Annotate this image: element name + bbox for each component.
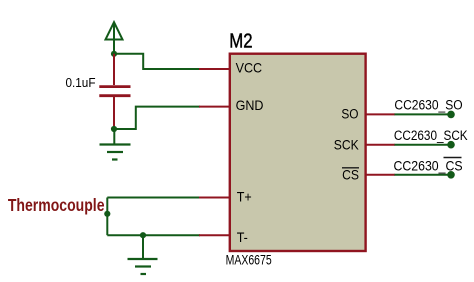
wire thermocouple vertical xyxy=(106,198,108,236)
terminal dot Thermocouple xyxy=(104,211,110,217)
IC M2 MAX6675 body xyxy=(230,54,366,251)
svg-text:GND: GND xyxy=(236,98,264,114)
svg-text:CC2630_SCK: CC2630_SCK xyxy=(394,127,468,143)
svg-text:CC2630_SO: CC2630_SO xyxy=(394,97,462,113)
wire cap bottom to GND pin xyxy=(114,107,200,129)
junction dot C (T- / ground) xyxy=(140,232,146,238)
svg-text:SCK: SCK xyxy=(334,137,359,153)
svg-text:T+: T+ xyxy=(237,189,252,205)
junction dot B (cap / gnd / GND wire) xyxy=(111,126,117,132)
wire to T- pin xyxy=(107,234,200,236)
pin VCC stub xyxy=(199,68,230,70)
svg-text:CS: CS xyxy=(342,167,359,183)
wire power to VCC pin xyxy=(114,54,200,69)
net label CC2630_CS with overline xyxy=(394,158,463,174)
pin SCK stub xyxy=(366,144,395,146)
wire CS to terminal xyxy=(395,174,452,176)
pin label CS with overline xyxy=(342,167,359,183)
svg-text:VCC: VCC xyxy=(236,60,262,76)
pin SO stub xyxy=(366,113,395,115)
pin CS stub xyxy=(366,174,395,176)
svg-text:SO: SO xyxy=(341,106,358,122)
capacitor C1 0.1uF xyxy=(99,54,130,129)
pin T- stub xyxy=(199,234,230,236)
svg-text:T-: T- xyxy=(237,229,248,245)
terminal dot CC2630_SO xyxy=(447,111,455,119)
pin T+ stub xyxy=(199,197,230,199)
wire SO to terminal xyxy=(395,113,452,115)
svg-text:0.1uF: 0.1uF xyxy=(65,75,95,89)
terminal dot CC2630_CS xyxy=(447,171,455,179)
junction dot A (power / cap / VCC wire) xyxy=(111,51,117,57)
ground symbol upper xyxy=(100,129,131,160)
svg-text:MAX6675: MAX6675 xyxy=(226,252,272,268)
wire to T+ pin xyxy=(107,197,200,199)
power terminal VCC arrow xyxy=(106,22,123,54)
svg-text:M2: M2 xyxy=(229,29,252,52)
svg-text:Thermocouple: Thermocouple xyxy=(8,195,105,215)
ground symbol lower xyxy=(128,235,158,274)
terminal dot CC2630_SCK xyxy=(447,141,455,149)
pin GND stub xyxy=(199,106,230,108)
wire SCK to terminal xyxy=(395,144,452,146)
svg-text:CC2630_CS: CC2630_CS xyxy=(394,158,463,174)
